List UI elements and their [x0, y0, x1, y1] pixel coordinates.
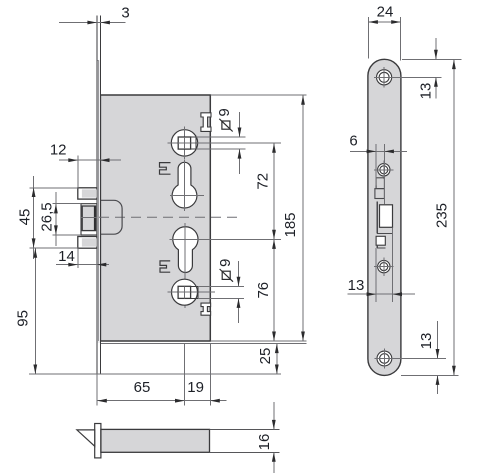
svg-text:65: 65 [134, 379, 151, 396]
svg-text:235: 235 [434, 203, 451, 228]
dim 13 top [402, 58, 462, 60]
svg-text:26,5: 26,5 [39, 202, 56, 231]
faceplate inner line [98, 60, 100, 341]
screw hole 4 [375, 358, 394, 360]
dim 13 bottom [393, 358, 446, 360]
svg-text:6: 6 [349, 133, 357, 150]
screw hole 2 [374, 169, 393, 171]
svg-text:14: 14 [58, 248, 75, 265]
deadbolt bottom flange [78, 237, 97, 249]
latch bevel triangle [77, 430, 95, 446]
svg-text:13: 13 [418, 83, 435, 100]
screw hole 1 [374, 76, 393, 78]
dim 45 (bolt height) [30, 187, 78, 189]
dim 14 [56, 264, 109, 266]
faceplate plan (stadium) [368, 59, 401, 375]
deadbolt middle section [81, 204, 97, 235]
retainer clip (bottom, I-beam) [201, 303, 211, 315]
dim 25 [276, 343, 278, 374]
svg-text:12: 12 [50, 142, 67, 159]
svg-text:19: 19 [187, 379, 204, 396]
svg-text:76: 76 [255, 282, 272, 299]
follower (bottom) square spindle hub [172, 279, 198, 305]
latch bar [101, 429, 210, 452]
dims 72 / 76 chain line [273, 143, 275, 341]
lower notch [376, 236, 385, 245]
dim 16 [273, 402, 275, 429]
euro profile cylinder hole [173, 227, 198, 273]
spring clip (left of cylinder) [160, 261, 170, 272]
deadbolt top flange [78, 188, 97, 199]
dim sq9 top label and arrows [196, 136, 245, 138]
svg-text:45: 45 [17, 209, 34, 226]
dim 185 [302, 95, 304, 341]
svg-text:16: 16 [256, 434, 273, 451]
screw hole 3 [374, 266, 393, 268]
dashed centerline [83, 216, 240, 218]
svg-text:95: 95 [15, 310, 32, 327]
svg-text:13: 13 [418, 333, 435, 350]
dim 3 (faceplate thickness) [59, 22, 126, 24]
latch guide notches [376, 178, 384, 189]
svg-text:25: 25 [257, 348, 274, 365]
svg-text:9: 9 [216, 108, 233, 116]
dim 13 middle (window width) [375, 248, 377, 302]
faceplate edge view (3mm strip) [97, 60, 101, 343]
latch cavity rounded outline on body front [101, 200, 122, 234]
body top edge extension (185 dim) [210, 94, 306, 96]
dim 6 [375, 144, 377, 186]
follower (top) square spindle hub [171, 130, 197, 156]
dims 65 / 19 [96, 374, 98, 405]
dim 95 [34, 248, 36, 374]
svg-text:24: 24 [377, 4, 394, 21]
deadbolt window [376, 201, 378, 233]
lock body (case) [100, 95, 210, 341]
dim 24 [367, 17, 369, 59]
spring clip (left of keyhole) [160, 163, 171, 175]
svg-text:9: 9 [217, 259, 234, 267]
body bottom edge extension (185/76 dims) [210, 340, 306, 342]
bottom extension line y=374 [29, 373, 281, 375]
svg-text:72: 72 [255, 173, 272, 190]
dim 12 (bolt throw) [59, 159, 121, 161]
body bottom plate edge line [101, 342, 307, 344]
svg-text:13: 13 [348, 277, 365, 294]
retainer clip (top, I-beam) [201, 113, 211, 132]
faceplate slice [95, 424, 101, 458]
dim 26,5 (bolt middle height) [53, 203, 81, 205]
svg-text:185: 185 [282, 212, 299, 237]
dim 235 [401, 374, 459, 376]
dim sq9 bottom label and arrows [198, 285, 244, 287]
svg-text:3: 3 [121, 5, 129, 22]
keyhole (top) [172, 162, 197, 208]
